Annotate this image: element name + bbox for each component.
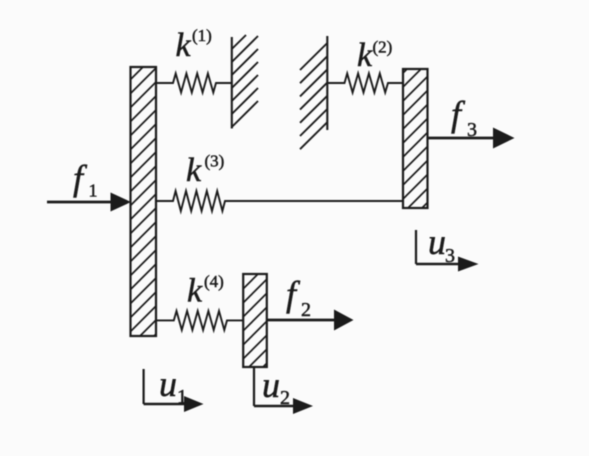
svg-text:u: u [159, 364, 177, 404]
label f1 [73, 158, 98, 201]
svg-text:k: k [186, 152, 202, 189]
force arrow f2 [267, 310, 354, 331]
svg-text:3: 3 [445, 245, 455, 267]
svg-text:u: u [428, 222, 446, 262]
label k2 [357, 37, 392, 74]
spring k3 with long wire to node 3 [156, 191, 403, 211]
svg-text:2: 2 [301, 299, 311, 321]
label k1 [176, 26, 212, 64]
svg-text:f: f [286, 274, 301, 314]
svg-text:(2): (2) [373, 38, 393, 57]
force arrow f3 [428, 128, 515, 149]
node 1 bar [131, 67, 157, 336]
displacement reference u3 [416, 230, 479, 272]
node 2 bar [243, 274, 267, 367]
displacement reference u1 [144, 369, 204, 412]
wall (fixed support) for k1 [232, 35, 258, 129]
spring k4 [156, 311, 243, 330]
spring k2 [327, 74, 403, 93]
force arrow f1 [47, 193, 131, 212]
svg-text:1: 1 [89, 181, 98, 201]
label u3 [428, 222, 455, 267]
displacement reference u2 [254, 367, 313, 414]
label f2 [286, 274, 311, 321]
svg-text:k: k [187, 273, 203, 310]
svg-text:3: 3 [467, 119, 477, 141]
label f3 [451, 94, 477, 141]
label u1 [159, 364, 187, 408]
svg-text:2: 2 [280, 387, 290, 409]
svg-text:k: k [357, 37, 373, 74]
spring k1 [156, 74, 232, 93]
svg-text:(4): (4) [204, 272, 224, 291]
svg-text:1: 1 [177, 386, 187, 408]
wall (fixed support) for k2 [300, 36, 327, 149]
label k4 [187, 272, 224, 310]
svg-text:u: u [262, 365, 280, 405]
label k3 [186, 152, 224, 190]
svg-text:f: f [73, 158, 88, 198]
svg-text:f: f [451, 94, 466, 134]
svg-text:k: k [176, 27, 192, 64]
label u2 [262, 365, 290, 409]
node 3 bar [403, 69, 428, 208]
svg-text:(1): (1) [192, 26, 212, 45]
svg-text:(3): (3) [205, 152, 225, 171]
